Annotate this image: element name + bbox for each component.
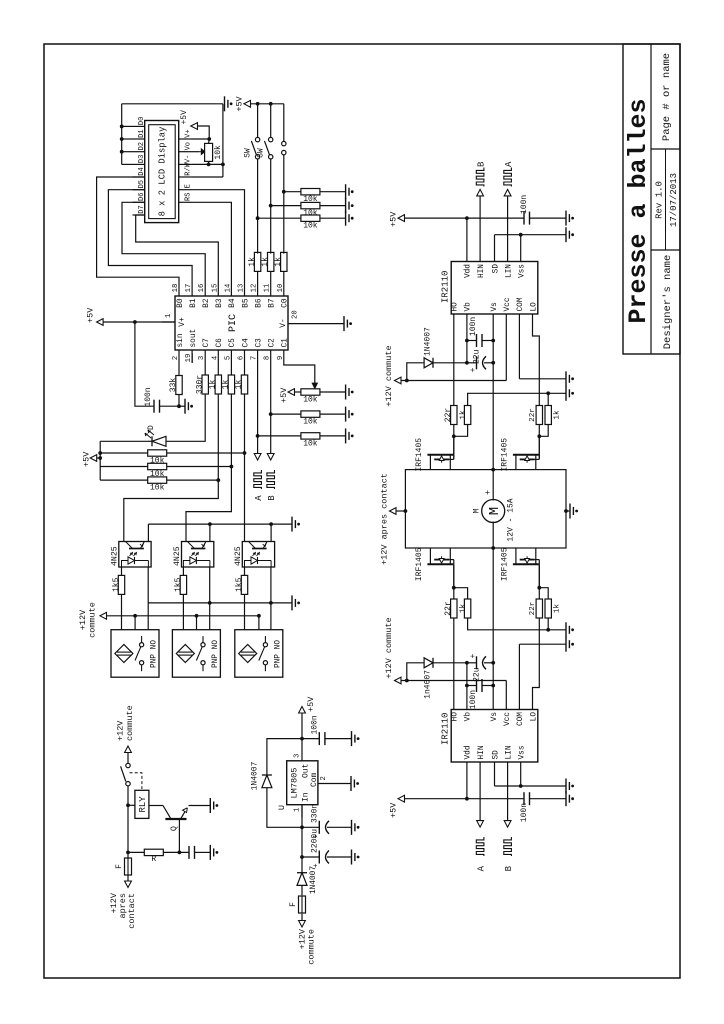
switch SW on B6 bbox=[255, 155, 259, 159]
wire D7 to PIC B3 bbox=[136, 215, 219, 283]
wire sensor supply to +12V rail bbox=[196, 616, 198, 630]
svg-text:10k: 10k bbox=[303, 222, 318, 231]
ground below C1 trimmer bbox=[345, 385, 347, 400]
svg-text:Vss: Vss bbox=[519, 745, 527, 759]
svg-text:IRF1405: IRF1405 bbox=[500, 547, 509, 581]
svg-text:A: A bbox=[504, 161, 514, 167]
wire to 100n decoupling bbox=[135, 322, 154, 406]
wire SD,Vss of U1 to ground bbox=[494, 235, 496, 248]
svg-text:+5V: +5V bbox=[235, 95, 245, 111]
svg-text:+12V: +12V bbox=[116, 720, 126, 741]
PIC right-side pins 18-10 port B stubs bbox=[178, 283, 180, 296]
input line to LM7805 bbox=[301, 805, 303, 828]
svg-text:1n4007: 1n4007 bbox=[424, 670, 433, 699]
resistor 330r on C7 line bbox=[204, 363, 206, 375]
ground of base capacitor bbox=[209, 845, 211, 860]
svg-text:HIN: HIN bbox=[478, 745, 486, 759]
svg-text:LO: LO bbox=[530, 712, 538, 722]
svg-text:14: 14 bbox=[224, 284, 232, 293]
sensor box PNP NO bbox=[172, 630, 220, 678]
svg-text:V+: V+ bbox=[179, 317, 187, 327]
resistor 1k on B7 line bbox=[270, 270, 272, 283]
wire U2 Vb bootstrap node bbox=[466, 663, 468, 696]
svg-text:4N25: 4N25 bbox=[110, 546, 119, 566]
wire C5 to opto OK2 collector bbox=[186, 394, 231, 542]
svg-text:330r: 330r bbox=[195, 375, 204, 394]
optocoupler 4N25 box bbox=[242, 542, 274, 568]
svg-text:F: F bbox=[289, 902, 298, 907]
svg-text:330n: 330n bbox=[311, 804, 320, 823]
junction sin node bbox=[177, 404, 181, 408]
wire U2 COM to ground bbox=[518, 644, 520, 696]
fuse F supply input bbox=[299, 896, 306, 913]
junction on V+ line bbox=[133, 320, 137, 324]
pullup resistor 10k (C4 net) bbox=[100, 452, 148, 454]
svg-text:commute: commute bbox=[88, 602, 98, 638]
+5V rail at U2 Vdd bbox=[466, 776, 468, 799]
svg-text:C7: C7 bbox=[203, 338, 211, 348]
svg-text:C6: C6 bbox=[216, 338, 224, 348]
resistor 1k5 opto input bbox=[121, 595, 123, 630]
wire E to PIC B5 bbox=[192, 190, 245, 283]
svg-text:1k5: 1k5 bbox=[112, 577, 121, 592]
svg-text:10k: 10k bbox=[303, 418, 318, 427]
wire C7 to LED bbox=[166, 394, 205, 441]
svg-text:16: 16 bbox=[198, 284, 206, 293]
svg-text:PNP NO: PNP NO bbox=[151, 640, 159, 668]
svg-text:+12V apres contact: +12V apres contact bbox=[380, 473, 390, 565]
ground at PIC sin network bbox=[179, 405, 185, 407]
transistor Q2 IRF1405 bbox=[513, 454, 539, 456]
svg-text:C0: C0 bbox=[282, 298, 290, 308]
svg-text:Vdd: Vdd bbox=[465, 264, 473, 278]
net A pulse input to U2 HIN bbox=[479, 776, 481, 821]
svg-text:M: M bbox=[487, 507, 503, 515]
ground of U1 COM bbox=[565, 371, 567, 386]
wire sensor supply to +12V rail bbox=[258, 616, 260, 630]
+5V arrow at pullup rail bbox=[97, 457, 101, 459]
svg-text:IRF1405: IRF1405 bbox=[500, 438, 509, 472]
+5V arrow feeding switches bbox=[244, 100, 251, 107]
svg-text:D6: D6 bbox=[138, 193, 146, 201]
LCD data pins D0-D7 stubs and labels bbox=[133, 125, 145, 127]
IR2110 U1 drive pins HO Vb Vs Vcc COM LO bbox=[453, 314, 455, 328]
H-bridge wiring rectangle bbox=[405, 470, 566, 548]
wire sensor output to opto cathode bbox=[270, 567, 272, 630]
ground of LCD bus bbox=[224, 96, 226, 111]
+5V supply arrow at PIC V+ bbox=[97, 319, 104, 326]
ground of U1 rail cap bbox=[565, 211, 567, 226]
svg-text:7: 7 bbox=[251, 356, 259, 360]
svg-text:D7: D7 bbox=[138, 205, 146, 213]
+12V commute input arrow bbox=[299, 921, 306, 928]
resistor 1k gate-source Q1 bbox=[454, 406, 468, 437]
svg-text:contact: contact bbox=[127, 893, 137, 929]
svg-text:12V - 15A: 12V - 15A bbox=[507, 498, 516, 541]
svg-text:A: A bbox=[477, 865, 487, 871]
svg-text:1k: 1k bbox=[248, 257, 257, 267]
svg-text:D0: D0 bbox=[138, 117, 146, 125]
svg-text:B: B bbox=[477, 161, 487, 167]
ground of LM7805 Com bbox=[350, 776, 352, 791]
svg-text:11: 11 bbox=[264, 284, 272, 293]
ground of U2 rail cap bbox=[565, 791, 567, 806]
svg-text:B4: B4 bbox=[229, 298, 237, 308]
LM7805 pin 3 Out bbox=[301, 748, 303, 761]
wire C3 to net A bbox=[257, 363, 259, 454]
wire sensor output to opto cathode bbox=[147, 567, 149, 630]
resistor 1k5 opto input bbox=[182, 595, 184, 630]
svg-text:HIN: HIN bbox=[478, 264, 486, 278]
svg-text:10k: 10k bbox=[303, 195, 318, 204]
svg-text:RS: RS bbox=[185, 193, 193, 201]
svg-text:2: 2 bbox=[320, 776, 328, 780]
wire R/W and V- to ground bus bbox=[192, 176, 223, 178]
svg-text:IRF1405: IRF1405 bbox=[415, 547, 424, 581]
ground of 330n bbox=[351, 820, 353, 835]
svg-text:+5V: +5V bbox=[279, 387, 289, 403]
wire V+ to +5V and contrast pot bbox=[192, 138, 210, 140]
ground of Q3/Q4 gate resistors bbox=[565, 622, 567, 637]
transistor Q1 IRF1405 bbox=[427, 454, 453, 456]
pulldown resistor 10k on B6 at switch bbox=[256, 216, 260, 220]
pullup resistor 10k (C5 net) bbox=[100, 466, 148, 468]
capacitor at Q base bbox=[188, 846, 190, 859]
ground of Q emitter bbox=[209, 798, 211, 813]
relay RLY coil box bbox=[135, 790, 149, 818]
svg-text:4: 4 bbox=[211, 356, 219, 360]
capacitor 100n on U1 +5V rail bbox=[523, 212, 525, 225]
optocoupler 4N25 box bbox=[119, 542, 151, 568]
svg-text:100n: 100n bbox=[469, 690, 478, 709]
svg-text:sin: sin bbox=[177, 333, 185, 347]
svg-text:PNP NO: PNP NO bbox=[274, 640, 282, 668]
svg-text:D1: D1 bbox=[138, 129, 146, 137]
svg-text:F: F bbox=[115, 864, 124, 869]
switch SW on B7 bbox=[269, 155, 273, 159]
ground of U2 COM bbox=[565, 637, 567, 652]
svg-text:LIN: LIN bbox=[505, 264, 513, 278]
wire U1 LO to Q2 gate via 22r bbox=[533, 328, 540, 406]
svg-text:+5V: +5V bbox=[389, 211, 399, 227]
title block outline bbox=[623, 44, 680, 354]
svg-text:22r: 22r bbox=[444, 601, 453, 616]
svg-text:LO: LO bbox=[530, 302, 538, 312]
svg-text:SW: SW bbox=[258, 148, 266, 158]
contrast potentiometer 10k bbox=[205, 143, 213, 161]
svg-text:R: R bbox=[151, 855, 156, 864]
svg-text:22u: 22u bbox=[473, 349, 482, 364]
svg-text:Vcc: Vcc bbox=[504, 712, 512, 726]
capacitor 22u bootstrap bbox=[476, 356, 478, 369]
pulldown resistor 10k on C0 at connector bbox=[282, 190, 286, 194]
svg-text:Page # or name: Page # or name bbox=[661, 53, 673, 141]
diode 1N4007 bootstrap U1 bbox=[407, 363, 424, 381]
svg-text:+12V: +12V bbox=[78, 609, 88, 630]
svg-text:SD: SD bbox=[492, 264, 500, 274]
PIC pin 1 V+ top pin bbox=[162, 321, 175, 323]
svg-text:V+: V+ bbox=[185, 129, 193, 137]
capacitor 100n Vb-Vs U2 bbox=[476, 679, 478, 692]
svg-text:100n: 100n bbox=[520, 803, 529, 822]
svg-text:9: 9 bbox=[277, 356, 285, 360]
wire U1 HO to Q1 gate via 22r bbox=[453, 327, 456, 329]
wire U1 COM to ground bbox=[518, 328, 520, 379]
ground under C0 pulldown bbox=[345, 184, 347, 199]
LED D bbox=[152, 436, 166, 446]
svg-text:4N25: 4N25 bbox=[234, 546, 243, 566]
PIC left-side pins 2,19,3-9 stubs bbox=[178, 350, 180, 363]
svg-text:B0: B0 bbox=[177, 298, 185, 308]
svg-text:22r: 22r bbox=[444, 408, 453, 423]
svg-text:17: 17 bbox=[185, 284, 193, 293]
sensor box PNP NO bbox=[111, 630, 159, 678]
sensor box PNP NO bbox=[235, 630, 283, 678]
svg-text:C3: C3 bbox=[255, 338, 263, 348]
svg-text:SW: SW bbox=[245, 148, 253, 158]
svg-text:1k: 1k bbox=[274, 257, 283, 267]
svg-text:B1: B1 bbox=[190, 298, 198, 308]
wire C6 to opto OK1 collector bbox=[124, 394, 219, 542]
svg-text:17/07/2013: 17/07/2013 bbox=[669, 173, 679, 227]
ground below C3 pulldown bbox=[345, 428, 347, 443]
diode 1N4007 supply input bbox=[301, 857, 303, 873]
svg-text:C4: C4 bbox=[242, 338, 250, 348]
svg-text:1k: 1k bbox=[554, 410, 562, 420]
svg-text:22r: 22r bbox=[529, 408, 537, 422]
resistor 1k gate-source Q3 bbox=[454, 588, 468, 618]
ground bus to GND symbol bbox=[122, 103, 223, 105]
capacitor 22u bootstrap U2 bbox=[476, 656, 478, 669]
svg-text:+: + bbox=[483, 490, 493, 495]
pullup resistor 10k (C6 net) bbox=[100, 479, 148, 481]
ground of sensor rail bbox=[291, 595, 293, 610]
svg-text:C1: C1 bbox=[282, 338, 290, 348]
svg-text:1: 1 bbox=[165, 314, 173, 318]
svg-text:5: 5 bbox=[224, 356, 232, 360]
transistor Q4 IRF1405 bbox=[513, 563, 539, 565]
+5V rail for LED and pullups bbox=[100, 440, 148, 442]
connector contact pair on C0 bbox=[282, 150, 286, 154]
svg-text:D5: D5 bbox=[138, 180, 146, 188]
ground under B6 pulldown bbox=[345, 211, 347, 226]
wire U2 LO to Q4 gate via 22r bbox=[533, 618, 540, 696]
svg-text:1k: 1k bbox=[235, 380, 244, 390]
diode 1n4007 bootstrap U2 bbox=[407, 663, 424, 681]
svg-text:COM: COM bbox=[517, 297, 525, 311]
net B pulse input to U2 LIN bbox=[507, 776, 509, 821]
pulldown resistor 10k on C3 bbox=[258, 435, 301, 437]
svg-text:10k: 10k bbox=[214, 145, 223, 160]
svg-text:Vb: Vb bbox=[465, 712, 473, 722]
svg-text:IR2110: IR2110 bbox=[441, 713, 451, 745]
resistor 1k on C6 line bbox=[217, 363, 219, 375]
svg-text:HO: HO bbox=[452, 302, 460, 312]
svg-text:18: 18 bbox=[172, 284, 180, 293]
+5V arrow at LCD V+ bbox=[198, 126, 210, 139]
svg-text:1N4007: 1N4007 bbox=[251, 761, 260, 790]
svg-text:LM7805: LM7805 bbox=[290, 768, 300, 799]
svg-text:Vs: Vs bbox=[491, 302, 499, 312]
svg-text:Presse a balles: Presse a balles bbox=[624, 98, 653, 323]
svg-text:20: 20 bbox=[292, 310, 300, 319]
resistor R base feed bbox=[128, 851, 144, 853]
resistor 33k on sin line bbox=[178, 363, 180, 376]
svg-text:LIN: LIN bbox=[505, 745, 513, 759]
svg-text:IR2110: IR2110 bbox=[441, 271, 451, 303]
svg-text:PIC: PIC bbox=[228, 314, 239, 332]
svg-text:1k: 1k bbox=[222, 380, 231, 390]
svg-text:IRF1405: IRF1405 bbox=[415, 438, 424, 472]
wire D4 to PIC B0 bbox=[97, 177, 179, 283]
svg-text:+12V commute: +12V commute bbox=[384, 617, 394, 678]
ground of U2 SD/Vss bbox=[565, 779, 567, 794]
svg-text:+12V commute: +12V commute bbox=[384, 345, 394, 406]
svg-text:PNP NO: PNP NO bbox=[212, 640, 220, 668]
svg-text:A: A bbox=[254, 495, 264, 501]
svg-text:+5V: +5V bbox=[82, 451, 92, 467]
svg-text:+: + bbox=[469, 367, 478, 372]
IR2110 U1 logic pins Vdd HIN SD LIN Vss bbox=[466, 248, 468, 262]
svg-text:+5V: +5V bbox=[389, 802, 399, 818]
pulldown resistor 10k on B7 at switch bbox=[269, 204, 273, 208]
wire sensor output to opto cathode bbox=[209, 567, 211, 630]
resistor 1k gate-source Q4 bbox=[539, 588, 548, 600]
svg-text:100n: 100n bbox=[144, 387, 153, 406]
grounded data bus D0-D3 bbox=[122, 163, 133, 165]
wire U2 Vcc bbox=[505, 681, 507, 697]
LM7805 pin 2 Com to ground bbox=[318, 783, 351, 785]
svg-text:COM: COM bbox=[517, 712, 525, 726]
gate driver IR2110 U1 box bbox=[451, 262, 538, 315]
svg-text:B5: B5 bbox=[242, 298, 250, 308]
motor M 12V - 15A bbox=[482, 500, 505, 523]
wiper arrow from Vo to pot bbox=[192, 151, 200, 153]
wire U1 Vs to bridge switch node bbox=[492, 328, 494, 470]
svg-text:100n: 100n bbox=[469, 317, 478, 336]
svg-text:C2: C2 bbox=[269, 338, 277, 348]
ground of output 100n bbox=[351, 731, 353, 746]
svg-text:+5V: +5V bbox=[306, 696, 316, 712]
svg-text:Q: Q bbox=[169, 826, 179, 831]
svg-text:+: + bbox=[469, 654, 478, 659]
optocoupler 4N25 box bbox=[182, 542, 214, 568]
svg-text:10k: 10k bbox=[303, 396, 318, 405]
svg-text:100n: 100n bbox=[520, 195, 529, 214]
svg-text:10: 10 bbox=[277, 284, 285, 293]
wire U1 Vb bootstrap node bbox=[466, 328, 468, 363]
svg-text:1k: 1k bbox=[459, 410, 467, 420]
svg-text:RLY: RLY bbox=[138, 796, 148, 813]
svg-text:HO: HO bbox=[452, 712, 460, 722]
capacitor 330n at regulator input bbox=[302, 826, 319, 828]
svg-text:Vdd: Vdd bbox=[465, 745, 473, 759]
svg-text:V-: V- bbox=[185, 155, 193, 163]
svg-text:SD: SD bbox=[492, 750, 500, 760]
wire C2 to net B bbox=[270, 363, 272, 454]
resistor 1k on C0 line bbox=[283, 270, 285, 283]
+12V commute arrow at relay switch bbox=[125, 746, 132, 753]
svg-text:E: E bbox=[185, 184, 193, 188]
wire +12V line to RLY bbox=[128, 804, 135, 806]
svg-text:15: 15 bbox=[211, 284, 219, 293]
ground at PIC V- bbox=[343, 316, 345, 331]
svg-text:Vss: Vss bbox=[519, 264, 527, 278]
svg-text:+5V: +5V bbox=[180, 110, 189, 125]
+5V rail at U1 Vdd bbox=[466, 218, 468, 248]
svg-text:B: B bbox=[267, 495, 277, 501]
svg-text:C5: C5 bbox=[229, 338, 237, 348]
capacitor 100n on 5V output bbox=[302, 738, 319, 740]
sensor ground rail bbox=[148, 602, 292, 604]
svg-text:B6: B6 bbox=[255, 298, 263, 308]
svg-text:1k5: 1k5 bbox=[235, 577, 244, 592]
svg-text:commute: commute bbox=[125, 705, 135, 741]
svg-text:1N4007: 1N4007 bbox=[424, 327, 433, 356]
svg-text:B2: B2 bbox=[203, 298, 211, 308]
IR2110 U2 drive pins HO Vb Vs Vcc COM LO bbox=[453, 696, 455, 710]
svg-text:22r: 22r bbox=[529, 602, 537, 616]
svg-text:B7: B7 bbox=[269, 298, 277, 308]
net B arrow and pulse label bbox=[267, 454, 274, 461]
LM7805 pin 1 In bbox=[301, 805, 303, 818]
svg-text:12: 12 bbox=[251, 284, 259, 293]
dashed mechanical link to RLY bbox=[130, 773, 142, 789]
wire and manual switch bbox=[127, 753, 129, 764]
svg-text:D4: D4 bbox=[138, 167, 146, 175]
PIC pin 19 sout underline bbox=[191, 354, 193, 363]
svg-text:1N4007: 1N4007 bbox=[310, 866, 318, 894]
svg-text:1k5: 1k5 bbox=[174, 577, 183, 592]
svg-text:1: 1 bbox=[294, 808, 302, 812]
capacitor 100n at PIC supply bbox=[153, 400, 155, 413]
svg-text:100n: 100n bbox=[311, 715, 320, 734]
svg-text:2200u: 2200u bbox=[311, 829, 320, 853]
ground of U1 SD/Vss bbox=[565, 227, 567, 242]
resistor 1k gate-source Q2 bbox=[539, 424, 548, 436]
svg-text:Vs: Vs bbox=[491, 712, 499, 722]
ground of 2200u bbox=[351, 850, 353, 865]
net A pulse input to U1 LIN bbox=[507, 196, 509, 248]
ground under B7 pulldown bbox=[345, 198, 347, 213]
svg-text:Vo: Vo bbox=[185, 142, 193, 150]
ground below C2 pulldown bbox=[345, 407, 347, 422]
net A arrow and pulse label bbox=[254, 454, 261, 461]
capacitor 100n Vb-Vs bbox=[476, 334, 478, 347]
svg-text:Designer's name: Designer's name bbox=[662, 255, 674, 350]
wire +5V to PIC pin1 bbox=[103, 321, 175, 323]
wire RS to PIC B4 bbox=[192, 202, 232, 283]
wire D6 to PIC B2 bbox=[122, 202, 205, 283]
wire U2 HO to Q3 gate via 22r bbox=[453, 618, 455, 696]
wire C4 to opto OK3 collector bbox=[244, 394, 246, 542]
capacitor 100n on U2 +5V rail bbox=[523, 792, 525, 805]
voltage regulator LM7805 U box bbox=[287, 761, 318, 805]
svg-text:10k: 10k bbox=[303, 439, 318, 448]
svg-text:B: B bbox=[504, 865, 514, 871]
ground of emitter rail bbox=[291, 517, 293, 532]
opto emitter ground rail bbox=[147, 524, 149, 541]
gate driver IR2110 U2 box bbox=[451, 710, 538, 763]
fuse F relay supply bbox=[127, 857, 129, 859]
svg-text:Vb: Vb bbox=[465, 302, 473, 312]
resistor 1k5 opto input bbox=[244, 595, 246, 630]
svg-text:V-: V- bbox=[280, 318, 288, 327]
svg-text:1k: 1k bbox=[261, 257, 270, 267]
PIC microcontroller U-PIC box bbox=[175, 296, 288, 350]
resistor 1k on C4 line bbox=[244, 363, 246, 375]
svg-text:13: 13 bbox=[238, 284, 246, 293]
